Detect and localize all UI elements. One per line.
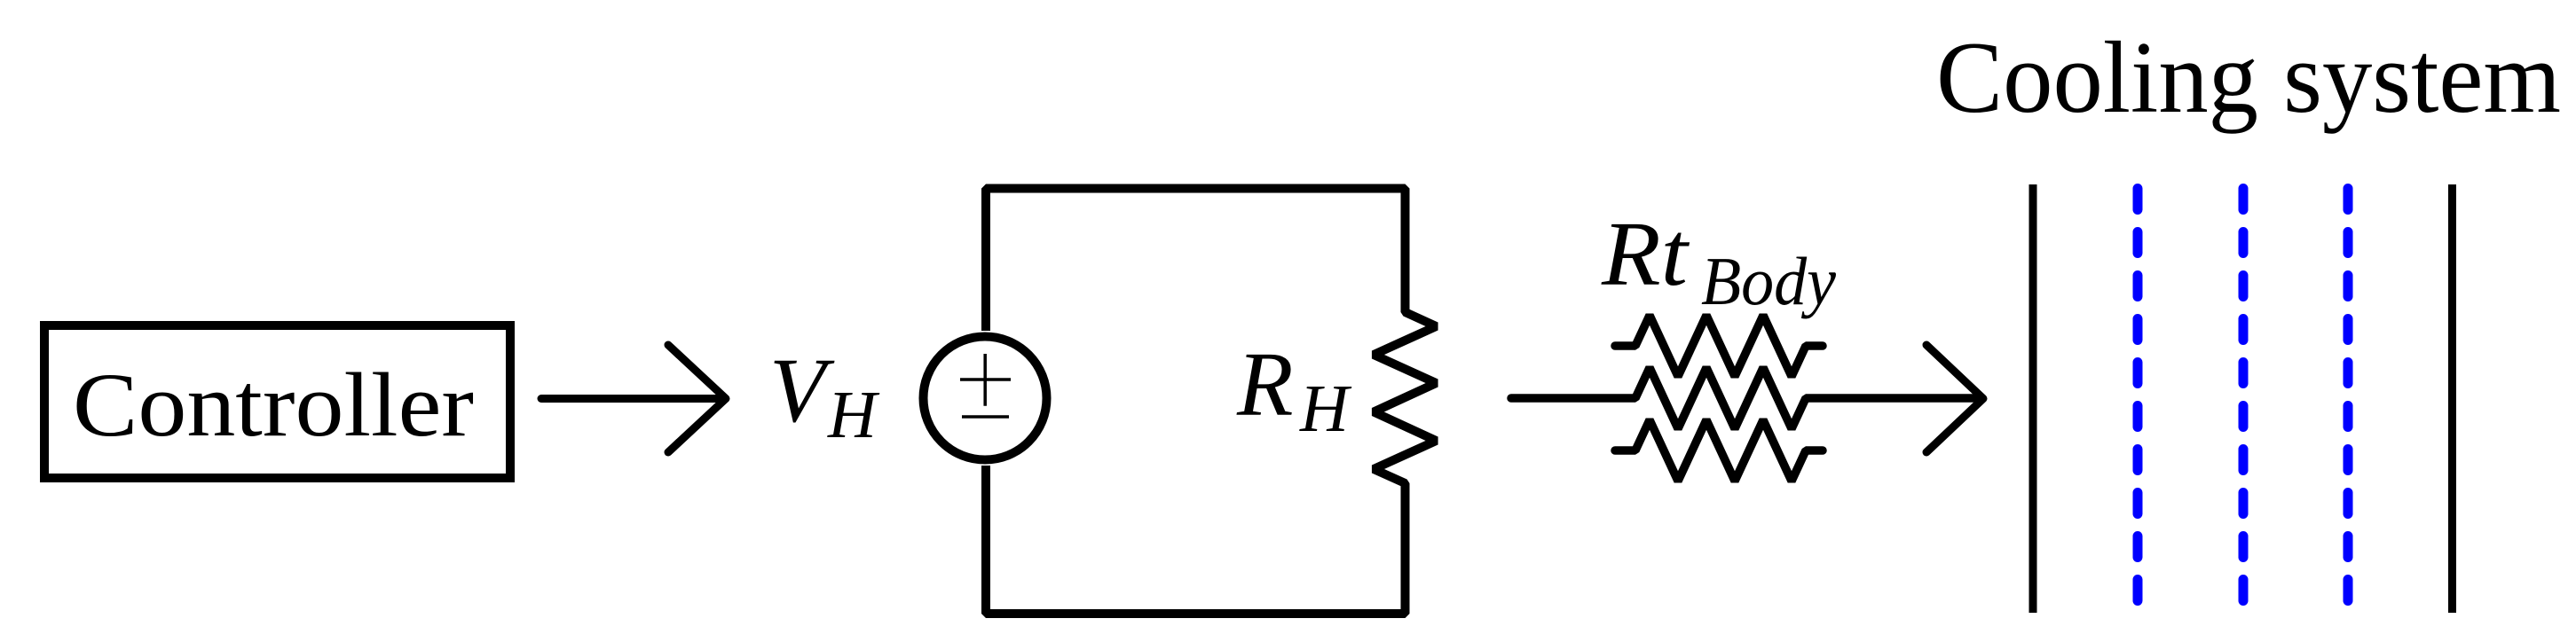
svg-text:Body: Body (1701, 243, 1837, 319)
svg-text:R: R (1236, 333, 1294, 435)
svg-text:Controller: Controller (73, 355, 474, 456)
svg-text:Cooling system: Cooling system (1936, 21, 2561, 135)
svg-text:V: V (769, 340, 835, 442)
svg-text:Rt: Rt (1601, 203, 1690, 305)
svg-text:H: H (1299, 372, 1352, 446)
svg-text:H: H (827, 378, 880, 452)
